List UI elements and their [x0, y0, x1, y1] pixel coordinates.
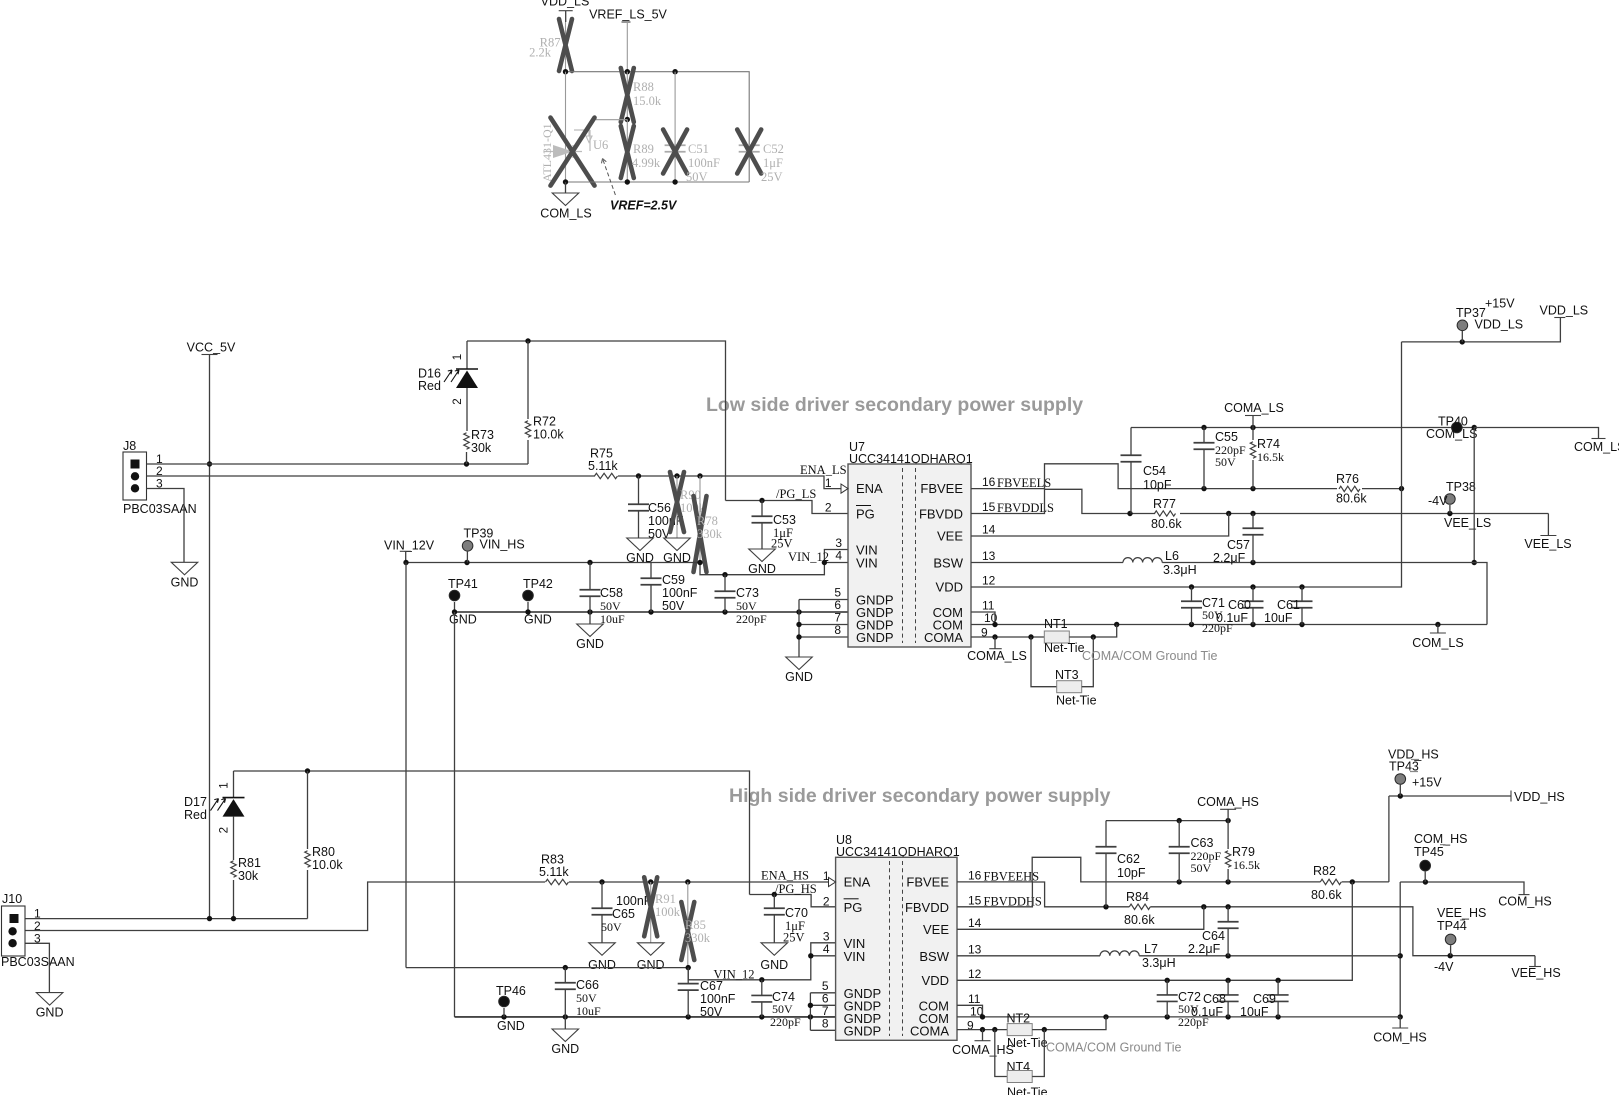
ground below C66 — [564, 1017, 566, 1029]
svg-text:COMA/COM Ground Tie: COMA/COM Ground Tie — [1082, 649, 1217, 663]
resistor R87 2.2k (deleted) — [565, 22, 567, 72]
svg-text:50V: 50V — [600, 599, 621, 613]
svg-text:VEE_LS: VEE_LS — [1444, 516, 1491, 530]
svg-text:COMA_HS: COMA_HS — [1197, 795, 1259, 809]
svg-text:10.0k: 10.0k — [533, 428, 564, 442]
ground COM_LS of deleted circuit — [565, 182, 567, 193]
testpoint TP40 COM_LS — [1452, 422, 1463, 433]
svg-text:80.6k: 80.6k — [1124, 913, 1155, 927]
svg-text:GND: GND — [449, 613, 477, 627]
svg-text:NT3: NT3 — [1055, 668, 1079, 682]
svg-text:FBVEELS: FBVEELS — [997, 476, 1051, 490]
svg-text:R88: R88 — [633, 80, 654, 94]
wire top rail high side (D17/R80 to PG route) — [234, 771, 750, 895]
svg-text:50V: 50V — [662, 599, 685, 613]
svg-text:16: 16 — [982, 475, 996, 489]
svg-text:14: 14 — [982, 523, 996, 537]
svg-text:C59: C59 — [662, 573, 685, 587]
svg-text:R84: R84 — [1126, 890, 1149, 904]
svg-text:+15V: +15V — [1412, 776, 1442, 790]
wire VIN_12V drop to high side — [405, 563, 407, 968]
svg-text:VEE_LS: VEE_LS — [1524, 537, 1571, 551]
svg-text:PG: PG — [844, 900, 863, 915]
svg-text:COM_HS: COM_HS — [1373, 1031, 1426, 1045]
svg-text:PBC03SAAN: PBC03SAAN — [1, 955, 75, 969]
svg-text:R81: R81 — [238, 856, 261, 870]
svg-text:J8: J8 — [123, 439, 136, 453]
svg-text:2: 2 — [452, 398, 464, 404]
inductor L6 3.3uH — [1123, 558, 1162, 563]
wire net BSW with inductor L6 to COM — [971, 562, 1123, 564]
wire net COMA_HS U8.9 — [957, 1029, 1007, 1031]
svg-text:2: 2 — [219, 827, 231, 833]
wire net VDD_HS from U8.12 up to +15V rail — [957, 882, 1352, 980]
svg-text:TP46: TP46 — [496, 984, 526, 998]
svg-text:GND: GND — [497, 1019, 525, 1033]
svg-text:50V: 50V — [736, 599, 757, 613]
svg-text:Net-Tie: Net-Tie — [1007, 1036, 1048, 1050]
svg-text:PBC03SAAN: PBC03SAAN — [123, 502, 197, 516]
resistor R77 80.6k — [1155, 511, 1176, 516]
svg-text:COMA: COMA — [910, 1023, 949, 1038]
wire +15V VDD_LS top rail — [1402, 318, 1561, 342]
svg-text:3.3μH: 3.3μH — [1163, 563, 1197, 577]
capacitor C63 220pF 50V — [1178, 821, 1180, 847]
svg-text:220pF: 220pF — [736, 612, 767, 626]
svg-text:COM_LS: COM_LS — [540, 207, 591, 221]
wire net ENA_HS from R83 to U8 pin 1 — [569, 881, 829, 883]
net flag COM_HS bottom — [1399, 1017, 1401, 1028]
svg-text:2.2μF: 2.2μF — [1188, 942, 1221, 956]
svg-text:2: 2 — [825, 501, 832, 515]
svg-text:C70: C70 — [785, 906, 808, 920]
wire U7 GNDP pins 5-8 tie — [799, 599, 848, 601]
ground below C70 — [761, 943, 788, 956]
capacitor C72 50V 220pF — [1166, 980, 1168, 994]
svg-text:4.99k: 4.99k — [632, 156, 661, 170]
resistor R82 80.6k — [1320, 879, 1341, 884]
capacitor C57 2.2uF — [1252, 514, 1254, 529]
svg-text:VIN: VIN — [844, 949, 866, 964]
svg-text:R74: R74 — [1257, 437, 1280, 451]
ground below C56 — [627, 538, 654, 551]
svg-text:/PG_LS: /PG_LS — [776, 487, 816, 501]
svg-text:8: 8 — [834, 623, 841, 637]
svg-text:VEE_HS: VEE_HS — [1437, 906, 1486, 920]
capacitor C52 1uF 25V (deleted) — [739, 145, 760, 152]
wire net FBVDDLS/VEE_LS from U7.15 through R77 to VEE_LS flag — [971, 489, 1155, 513]
svg-text:10pF: 10pF — [1143, 478, 1172, 492]
svg-text:D17: D17 — [184, 795, 207, 809]
svg-text:C67: C67 — [700, 979, 723, 993]
net flag COMA_HS bottom — [982, 1030, 984, 1041]
svg-text:0.1uF: 0.1uF — [1191, 1005, 1223, 1019]
wire VCC_5V vertical to J8.1 and J10.1 — [209, 355, 211, 919]
wire U8 GNDP pins 5-8 tie — [810, 992, 835, 994]
svg-text:VIN_12: VIN_12 — [788, 550, 829, 564]
wire top rail low side (VCC to D16/R72/PG route) — [467, 341, 726, 501]
svg-text:R80: R80 — [312, 845, 335, 859]
wire net COMA_LS U7.9 — [971, 636, 1044, 638]
svg-text:VDD_LS: VDD_LS — [1540, 304, 1589, 318]
svg-text:C73: C73 — [736, 586, 759, 600]
svg-text:PG: PG — [856, 507, 875, 522]
svg-text:25V: 25V — [761, 170, 783, 184]
svg-text:Low side driver secondary powe: Low side driver secondary power supply — [706, 394, 1083, 416]
wire net ENA_LS from R75 to U7 pin 1 — [618, 476, 841, 489]
svg-text:80.6k: 80.6k — [1151, 517, 1182, 531]
capacitor C61 10uF — [1301, 587, 1303, 601]
ground below R91 — [637, 943, 664, 956]
wire J8.2 to R75 (ENA_LS source) — [147, 475, 596, 477]
svg-text:COM_LS: COM_LS — [1412, 636, 1463, 650]
svg-text:COM_HS: COM_HS — [1498, 895, 1551, 909]
capacitor C66 50V 10uF — [564, 968, 566, 983]
net flag VDD_LS top right — [1554, 317, 1565, 319]
svg-text:VIN_12V: VIN_12V — [384, 539, 435, 553]
svg-text:10.0k: 10.0k — [312, 858, 343, 872]
svg-text:VDD_LS: VDD_LS — [1475, 318, 1524, 332]
svg-text:80.6k: 80.6k — [1336, 492, 1367, 506]
svg-text:VDD: VDD — [922, 973, 949, 988]
svg-text:COMA_LS: COMA_LS — [967, 649, 1027, 663]
svg-text:GND: GND — [760, 958, 788, 972]
net flag COM_LS bottom — [1437, 625, 1439, 634]
svg-text:10pF: 10pF — [1117, 866, 1146, 880]
svg-text:330k: 330k — [685, 931, 711, 945]
capacitor C74 50V 220pF — [761, 980, 763, 995]
svg-text:C69: C69 — [1253, 992, 1276, 1006]
svg-text:VCC_5V: VCC_5V — [187, 341, 236, 355]
svg-text:COM_LS: COM_LS — [1426, 427, 1477, 441]
svg-text:13: 13 — [968, 942, 982, 956]
svg-text:R90: R90 — [680, 488, 701, 502]
svg-text:14: 14 — [968, 916, 982, 930]
svg-text:8: 8 — [822, 1017, 829, 1031]
svg-text:2.2μF: 2.2μF — [1213, 551, 1246, 565]
svg-text:NT1: NT1 — [1044, 617, 1068, 631]
svg-text:15: 15 — [982, 500, 996, 514]
svg-text:10uF: 10uF — [1240, 1005, 1269, 1019]
svg-text:GND: GND — [588, 958, 616, 972]
svg-text:50V: 50V — [700, 1005, 723, 1019]
svg-text:FBVDD: FBVDD — [905, 900, 949, 915]
svg-text:GND: GND — [748, 562, 776, 576]
svg-text:9: 9 — [967, 1019, 974, 1033]
svg-text:COMA_LS: COMA_LS — [1224, 401, 1284, 415]
svg-text:100nF: 100nF — [700, 992, 736, 1006]
capacitor C54 10pF — [1130, 428, 1132, 456]
svg-text:1: 1 — [823, 869, 830, 883]
resistor R79 16.5k — [1227, 821, 1229, 849]
capacitor C69 10uF — [1277, 980, 1279, 994]
svg-text:COMA: COMA — [924, 630, 963, 645]
resistor R85 330k (deleted) — [687, 882, 689, 968]
capacitor C58 50V 10uF — [589, 563, 591, 590]
resistor R78 330k (deleted) — [699, 476, 701, 563]
svg-text:ENA_HS: ENA_HS — [761, 869, 809, 883]
svg-text:/PG_HS: /PG_HS — [775, 882, 817, 896]
svg-text:R85: R85 — [685, 918, 706, 932]
capacitor C73 50V 220pF — [724, 575, 726, 591]
wire U8.14 VEE to VEE rail — [957, 907, 1204, 930]
svg-text:C61: C61 — [1277, 598, 1300, 612]
svg-text:GND: GND — [171, 575, 199, 589]
svg-text:GND: GND — [785, 670, 813, 684]
svg-text:GNDP: GNDP — [844, 1023, 882, 1038]
svg-text:25V: 25V — [771, 537, 793, 551]
net flag VEE_LS right — [1547, 514, 1549, 536]
svg-text:VDD_LS: VDD_LS — [541, 0, 590, 9]
wire net COM_HS bottom rail U8.10/11 — [957, 1005, 983, 1017]
svg-text:2.2k: 2.2k — [529, 46, 552, 60]
svg-text:C51: C51 — [688, 142, 709, 156]
resistor R89 4.99k (deleted) — [626, 120, 628, 183]
svg-text:C62: C62 — [1117, 852, 1140, 866]
svg-text:100k: 100k — [655, 905, 681, 919]
svg-text:100nF: 100nF — [688, 156, 720, 170]
svg-text:C65: C65 — [612, 907, 635, 921]
svg-text:80.6k: 80.6k — [1311, 888, 1342, 902]
capacitor C64 2.2uF — [1227, 907, 1229, 922]
testpoint TP37 +15V VDD_LS — [1457, 320, 1468, 331]
svg-text:220pF: 220pF — [770, 1015, 801, 1029]
capacitor C62 10pF — [1105, 821, 1107, 847]
capacitor C56 100nF 50V — [638, 476, 640, 505]
svg-text:C66: C66 — [576, 978, 599, 992]
svg-text:TP38: TP38 — [1446, 480, 1476, 494]
svg-text:30k: 30k — [471, 441, 492, 455]
svg-text:10uF: 10uF — [1264, 611, 1293, 625]
svg-text:ATL431-Q1: ATL431-Q1 — [540, 123, 554, 182]
net flag VEE_HS right — [1534, 956, 1536, 967]
wire net VDD_HS mid rail cap connections — [1165, 978, 1170, 983]
svg-text:FBVEE: FBVEE — [920, 481, 963, 496]
ground below J10 — [36, 993, 63, 1006]
svg-text:C57: C57 — [1227, 538, 1250, 552]
capacitor C68 0.1uF — [1227, 980, 1229, 994]
capacitor C65 100nF 50V — [601, 882, 603, 908]
svg-text:COMA/COM Ground Tie: COMA/COM Ground Tie — [1046, 1041, 1181, 1055]
ground below R90 — [664, 538, 691, 551]
resistor R83 5.11k — [546, 879, 569, 884]
svg-text:5.11k: 5.11k — [588, 459, 618, 473]
svg-text:4: 4 — [835, 549, 842, 563]
svg-text:R78: R78 — [697, 514, 718, 528]
svg-text:ENA: ENA — [844, 874, 871, 889]
svg-text:1μF: 1μF — [763, 156, 783, 170]
wire net /PG_LS from top rail to U7 pin 2 — [726, 501, 849, 514]
svg-text:2: 2 — [823, 895, 830, 909]
wire J8.1 to R73/R72 bottom — [147, 463, 529, 465]
svg-text:C63: C63 — [1191, 836, 1214, 850]
svg-text:GND: GND — [551, 1042, 579, 1056]
svg-text:16: 16 — [968, 868, 982, 882]
svg-text:TP42: TP42 — [523, 577, 553, 591]
wire VIN_12V rail high side — [406, 967, 688, 969]
svg-text:VIN: VIN — [856, 556, 878, 571]
svg-text:FBVEEHS: FBVEEHS — [984, 869, 1040, 883]
wire J10.3 to GND — [26, 943, 50, 992]
resistor R75 5.11k — [595, 473, 618, 478]
svg-text:J10: J10 — [2, 892, 22, 906]
wire net BSW with inductor L7 — [957, 955, 1100, 957]
svg-text:C68: C68 — [1203, 992, 1226, 1006]
svg-text:ENA: ENA — [856, 481, 883, 496]
svg-text:C60: C60 — [1228, 598, 1251, 612]
svg-text:GND: GND — [576, 637, 604, 651]
svg-text:Net-Tie: Net-Tie — [1044, 641, 1085, 655]
svg-text:C56: C56 — [648, 501, 671, 515]
svg-text:50V: 50V — [772, 1002, 793, 1016]
svg-text:U6: U6 — [593, 138, 608, 152]
svg-text:16.5k: 16.5k — [1233, 858, 1260, 872]
svg-text:R79: R79 — [1232, 845, 1255, 859]
svg-text:50V: 50V — [601, 920, 622, 934]
svg-text:12: 12 — [982, 574, 996, 588]
ground below C53 — [749, 549, 776, 562]
resistor R72 10.0k — [527, 341, 529, 419]
svg-text:50V: 50V — [576, 991, 597, 1005]
resistor R88 15.0k (deleted) — [626, 72, 628, 120]
svg-text:16.5k: 16.5k — [1257, 450, 1284, 464]
capacitor C60 0.1uF — [1252, 587, 1254, 601]
svg-text:4: 4 — [823, 942, 830, 956]
capacitor C59 100nF 50V — [650, 563, 652, 579]
svg-text:R72: R72 — [533, 415, 556, 429]
wire GND rail high side — [455, 1016, 836, 1018]
svg-text:15.0k: 15.0k — [633, 94, 662, 108]
wire R76 to VDD net — [1362, 488, 1402, 490]
svg-text:C54: C54 — [1143, 464, 1166, 478]
resistor R91 100k (deleted) — [650, 882, 652, 943]
capacitor C70 1uF 25V — [773, 895, 775, 909]
svg-text:50V: 50V — [1215, 455, 1236, 469]
svg-text:Net-Tie: Net-Tie — [1056, 694, 1097, 708]
svg-text:R82: R82 — [1313, 864, 1336, 878]
svg-text:TP44: TP44 — [1437, 919, 1467, 933]
ground below J8 — [171, 562, 198, 575]
wire net FBVEEHS from U8.16 to R82 — [957, 857, 1320, 882]
svg-text:1: 1 — [452, 354, 464, 360]
wire U7.14 VEE to VEE rail — [971, 514, 1229, 537]
svg-text:High side driver secondary pow: High side driver secondary power supply — [729, 785, 1111, 807]
svg-text:VREF=2.5V: VREF=2.5V — [610, 199, 678, 213]
svg-text:COM_LS: COM_LS — [1574, 440, 1619, 454]
capacitor C67 100nF 50V — [687, 968, 689, 984]
wire J8.3 to GND — [147, 489, 185, 563]
svg-text:ENA_LS: ENA_LS — [800, 463, 847, 477]
svg-text:BSW: BSW — [933, 556, 963, 571]
svg-text:Red: Red — [184, 808, 207, 822]
diode D16 Red LED — [466, 341, 468, 369]
svg-text:C53: C53 — [773, 513, 796, 527]
svg-text:Net-Tie: Net-Tie — [1007, 1086, 1048, 1095]
testpoint TP43 +15V VDD_HS — [1395, 774, 1406, 785]
svg-text:C55: C55 — [1215, 430, 1238, 444]
svg-text:3.3μH: 3.3μH — [1142, 956, 1176, 970]
svg-text:TP41: TP41 — [448, 577, 478, 591]
wire R82 to VDD net — [1342, 881, 1389, 883]
svg-text:FBVEE: FBVEE — [906, 874, 949, 889]
svg-text:1: 1 — [219, 782, 231, 788]
svg-text:VIN_HS: VIN_HS — [480, 538, 525, 552]
wire net /PG_HS to U8 pin 2 — [750, 895, 836, 907]
wire COMA rail low side — [1131, 427, 1474, 429]
net flag COMA_LS bottom — [994, 637, 996, 649]
svg-text:VDD_HS: VDD_HS — [1514, 790, 1565, 804]
wire GND rail drop to high side — [454, 612, 456, 1017]
svg-text:VDD: VDD — [936, 580, 963, 595]
wire GND rail low side — [455, 611, 849, 613]
svg-text:R77: R77 — [1153, 497, 1176, 511]
wire +15V VDD_HS top rail — [1389, 795, 1511, 797]
wire net VDD_LS mid rail with caps — [1189, 584, 1194, 589]
svg-text:100nF: 100nF — [662, 586, 698, 600]
ground below U7 GNDP — [786, 657, 813, 670]
wire top rail of deleted circuit — [566, 72, 750, 182]
svg-text:C64: C64 — [1202, 929, 1225, 943]
resistor R73 30k — [464, 433, 469, 450]
svg-text:Red: Red — [418, 379, 441, 393]
svg-text:13: 13 — [982, 549, 996, 563]
svg-text:VREF_LS_5V: VREF_LS_5V — [589, 8, 667, 22]
svg-text:VEE: VEE — [923, 922, 949, 937]
svg-text:-4V: -4V — [1428, 494, 1448, 508]
net flag VDD_HS right — [1510, 791, 1512, 802]
wire net FBVDDHS from U8.15 through R84 to VEE_HS — [957, 882, 1129, 907]
ground below C65 — [589, 943, 616, 956]
svg-text:330k: 330k — [697, 527, 723, 541]
svg-text:5.11k: 5.11k — [539, 865, 569, 879]
svg-text:GNDP: GNDP — [856, 630, 894, 645]
svg-text:R73: R73 — [471, 428, 494, 442]
svg-text:R76: R76 — [1336, 472, 1359, 486]
op-amp U6 ATL431-Q1 shunt reference (deleted) — [596, 119, 627, 121]
svg-text:TP45: TP45 — [1414, 845, 1444, 859]
wire net COM_LS top rail from TP40 — [1474, 428, 1598, 439]
svg-text:0.1uF: 0.1uF — [1216, 611, 1248, 625]
svg-text:BSW: BSW — [919, 949, 949, 964]
svg-text:C58: C58 — [600, 586, 623, 600]
inductor L7 3.3uH — [1100, 951, 1139, 956]
capacitor C51 100nF 50V (deleted) — [674, 72, 676, 182]
wire COM vertical high side — [1399, 882, 1401, 1017]
wire J10.1 to R81/R80 — [26, 918, 308, 920]
wire bottom rail of deleted circuit — [566, 181, 750, 183]
svg-text:GND: GND — [36, 1006, 64, 1020]
wire net VDD_LS from U7.12 up to +15V rail — [971, 342, 1402, 587]
wire VIN_12V rail to U7 VIN pins — [406, 562, 700, 564]
svg-text:L7: L7 — [1144, 942, 1158, 956]
svg-text:15: 15 — [968, 893, 982, 907]
wire net FBVEELS from U7.16 to R76 — [971, 464, 1337, 489]
svg-text:50V: 50V — [1191, 861, 1212, 875]
svg-text:1: 1 — [825, 476, 832, 490]
svg-text:C52: C52 — [763, 142, 784, 156]
resistor R90 100k (deleted) — [676, 476, 678, 538]
svg-text:FBVDD: FBVDD — [919, 507, 963, 522]
net tie NT4 — [995, 1030, 1007, 1077]
svg-text:COMA_HS: COMA_HS — [952, 1043, 1014, 1057]
wire net COM_HS rail from TP45 — [1400, 882, 1524, 895]
svg-text:30k: 30k — [238, 869, 259, 883]
capacitor C53 1uF 25V — [761, 501, 763, 517]
diode D17 Red LED — [233, 771, 235, 798]
wire net COM_LS bottom rail U7.10/11 — [971, 612, 995, 625]
svg-text:+15V: +15V — [1485, 297, 1515, 311]
resistor R80 10.0k — [307, 771, 309, 849]
